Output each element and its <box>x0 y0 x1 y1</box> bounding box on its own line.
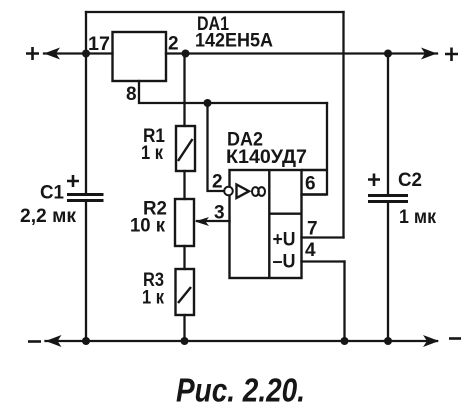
svg-text:2,2 мк: 2,2 мк <box>20 206 76 227</box>
svg-text:17: 17 <box>88 34 110 55</box>
svg-text:1 к: 1 к <box>142 288 164 309</box>
svg-text:4: 4 <box>305 240 316 261</box>
svg-text:1 мк: 1 мк <box>399 207 436 228</box>
svg-text:3: 3 <box>214 203 225 224</box>
svg-text:2: 2 <box>168 34 179 55</box>
svg-text:6: 6 <box>305 174 316 195</box>
svg-text:142ЕН5А: 142ЕН5А <box>195 31 273 52</box>
svg-text:2: 2 <box>212 172 223 193</box>
svg-text:–U: –U <box>273 252 296 273</box>
svg-text:К140УД7: К140УД7 <box>226 147 307 168</box>
svg-text:8: 8 <box>126 84 137 105</box>
svg-text:C1: C1 <box>40 183 64 204</box>
svg-text:1 к: 1 к <box>141 143 163 164</box>
svg-text:+U: +U <box>273 230 296 251</box>
svg-text:10 к: 10 к <box>130 216 165 237</box>
svg-text:Рис. 2.20.: Рис. 2.20. <box>176 372 305 409</box>
svg-text:C2: C2 <box>398 170 422 191</box>
svg-text:7: 7 <box>307 219 318 240</box>
